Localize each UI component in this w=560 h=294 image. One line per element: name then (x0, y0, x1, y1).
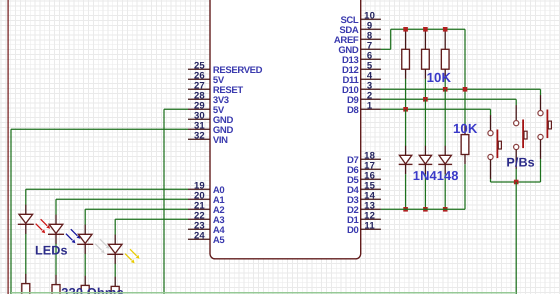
wire GND rail down (464, 29, 466, 125)
junction R7 D row (443, 87, 448, 92)
pin 11 D0 (361, 228, 381, 230)
svg-text:LEDs: LEDs (35, 244, 68, 258)
wire R8 to D2 bus (464, 164, 466, 209)
pushbutton S1 lead bottom (490, 160, 492, 179)
resistor R7 10K lead top (444, 29, 446, 49)
wire diode D2 to D2 bus (424, 174, 426, 209)
LED1 cathode lead (25, 224, 27, 234)
wire LED2 to resistor R2 (55, 244, 57, 275)
junction rail R5 (403, 27, 408, 32)
wire A3 to LED4 (115, 218, 188, 220)
diode D1 anode lead (405, 146, 407, 156)
junction rail R7 (443, 27, 448, 32)
diode D2 cathode lead (424, 164, 426, 174)
LED4 yellow (108, 244, 122, 253)
diode D2 anode lead (424, 146, 426, 156)
pin 26 5V (188, 78, 210, 80)
junction diode D2 D2 bus (423, 207, 428, 212)
resistor R6 lead bottom (424, 69, 426, 79)
pin 23 A4 (188, 228, 210, 230)
resistor R6 10K lead top (424, 29, 426, 49)
pushbutton S1 actuator (497, 130, 499, 159)
LED3 cathode lead (84, 244, 86, 254)
wire D10 to pushbutton S3 (540, 89, 542, 95)
resistor R7 10K (441, 49, 449, 69)
pin 9 SDA (361, 28, 381, 30)
pin 25 RESERVED (188, 68, 210, 70)
junction rail D10 (463, 87, 468, 92)
wire diode D3 to D2 bus (444, 174, 446, 209)
pin 10 SCL (361, 18, 381, 20)
resistor R7 lead bottom (444, 69, 446, 79)
pushbutton S3 lead bottom (540, 140, 542, 159)
resistor R4 330 Ohm (111, 286, 119, 294)
pin 20 A1 (188, 198, 210, 200)
svg-text:10K: 10K (453, 121, 478, 136)
pin 24 A5 (188, 238, 210, 240)
resistor R3 330 Ohm lead (84, 276, 86, 286)
pin 19 A0 (188, 188, 210, 190)
pin 27 RESET (188, 88, 210, 90)
LED3 white anode lead (84, 225, 86, 235)
svg-text:D8: D8 (347, 105, 359, 116)
svg-text:10K: 10K (427, 70, 452, 85)
pushbutton S3 contact bottom (538, 134, 543, 139)
wire pushbutton bottom rail (491, 181, 541, 183)
pushbutton S1 contact bottom (488, 154, 493, 159)
pin 6 D13 (361, 58, 381, 60)
wire GND pin31 to bottom (11, 128, 188, 130)
wire GND pin7 riser to pulldown rail (381, 48, 391, 50)
pin 22 A3 (188, 218, 210, 220)
pushbutton S3 lead top (540, 95, 542, 110)
junction diode D3 D2 bus (443, 207, 448, 212)
resistor R5 10K (402, 49, 410, 69)
diode D2 1N4148 (419, 155, 431, 164)
LED2 cathode lead (55, 234, 57, 244)
wire D row to diode D2 (424, 99, 426, 146)
wire LED1 to resistor R1 (25, 234, 27, 274)
pin 21 A2 (188, 208, 210, 210)
LED4 yellow anode lead (114, 235, 116, 245)
pin 8 AREF (361, 38, 381, 40)
svg-text:1: 1 (367, 101, 373, 112)
LED1 red anode lead (25, 205, 27, 215)
wire diode D1 to D2 bus (405, 174, 407, 209)
pin 1 D8 (361, 108, 381, 110)
svg-text:P/Bs: P/Bs (506, 156, 534, 170)
pin 12 D1 (361, 218, 381, 220)
diode D1 cathode lead (405, 164, 407, 174)
resistor R5 10K lead top (405, 29, 407, 49)
svg-text:32: 32 (194, 130, 205, 141)
junction R6 D row (423, 97, 428, 102)
junction pushbutton rail (514, 180, 519, 185)
pushbutton S2 actuator (522, 120, 524, 149)
pushbutton S1 contact top (488, 131, 493, 136)
resistor R2 330 Ohm (52, 285, 60, 294)
wire A1 to LED2 (56, 198, 188, 200)
wire R5 to D row (405, 79, 407, 109)
pin 2 D9 (361, 98, 381, 100)
pin 7 GND (361, 48, 381, 50)
pin 17 D6 (361, 168, 381, 170)
wire LED4 to resistor R4 (114, 264, 116, 277)
wire rail to bottom edge (515, 182, 517, 294)
LED1 red (19, 214, 33, 223)
pushbutton S3 actuator (547, 110, 549, 139)
pin 28 3V3 (188, 98, 210, 100)
resistor R8 lead bottom (464, 155, 466, 165)
pin 32 VIN (188, 138, 210, 140)
pin 31 GND (188, 128, 210, 130)
sheet frame left border (7, 0, 9, 294)
resistor R8 10K lead top (464, 125, 466, 135)
resistor R3 330 Ohm (81, 285, 89, 294)
resistor R5 lead bottom (405, 69, 407, 79)
wire D8 row (381, 108, 491, 110)
resistor R6 10K (422, 49, 430, 69)
svg-text:D0: D0 (347, 225, 359, 236)
wire pushbutton S2 to rail (515, 169, 517, 182)
svg-text:11: 11 (364, 221, 375, 232)
wire LED3 to resistor R3 (84, 254, 86, 276)
pushbutton S1 lead top (490, 115, 492, 130)
pin 5 D12 (361, 68, 381, 70)
diode D3 1N4148 (439, 155, 451, 164)
svg-text:A5: A5 (213, 235, 226, 246)
junction diode D1 D2 bus (403, 207, 408, 212)
clipped bus at bottom edge (11, 292, 516, 294)
wire D9 to pushbutton S2 (515, 99, 517, 105)
LED2 blue anode lead (55, 215, 57, 225)
resistor R8 10K (461, 135, 469, 155)
wire A0 to LED1 (26, 188, 188, 190)
wire D8 to pushbutton S1 (490, 109, 492, 115)
pin 15 D4 (361, 188, 381, 190)
LED3 white (78, 234, 92, 243)
wire D row to diode D1 (405, 109, 407, 146)
junction rail R6 (423, 27, 428, 32)
pin 16 D5 (361, 178, 381, 180)
pin 18 D7 (361, 158, 381, 160)
IC U1 Arduino body (210, 0, 361, 259)
wire pushbutton S1 to rail (490, 179, 492, 182)
LED2 blue (49, 224, 63, 233)
wire R7 to D row (444, 79, 446, 89)
pushbutton S2 lead top (515, 105, 517, 120)
wire pushbutton S3 to rail (540, 159, 542, 182)
junction R5 D row (403, 107, 408, 112)
wire 5V pin29 to bottom (164, 108, 188, 110)
pushbutton S2 lead bottom (515, 150, 517, 169)
resistor R1 330 Ohm lead (25, 274, 27, 284)
wire D10 row (381, 88, 541, 90)
wire D2 bus (381, 208, 465, 210)
wire D row to diode D3 (444, 89, 446, 146)
pin 3 D10 (361, 88, 381, 90)
diode D1 1N4148 (399, 155, 411, 164)
wire R6 to D row (424, 79, 426, 99)
resistor R4 330 Ohm lead (114, 277, 116, 287)
pin 29 5V (188, 108, 210, 110)
wire A2 to LED3 (85, 208, 188, 210)
LED4 cathode lead (114, 254, 116, 264)
resistor R1 330 Ohm (22, 284, 30, 294)
resistor R2 330 Ohm lead (55, 275, 57, 285)
svg-text:1N4148: 1N4148 (413, 168, 459, 183)
pin 4 D11 (361, 78, 381, 80)
pushbutton S2 contact top (514, 121, 519, 126)
pin 30 GND (188, 118, 210, 120)
svg-text:VIN: VIN (213, 135, 228, 146)
pushbutton S2 contact bottom (514, 144, 519, 149)
pin 13 D2 (361, 208, 381, 210)
wire D9 row (381, 98, 516, 100)
diode D3 anode lead (444, 146, 446, 156)
pin 14 D3 (361, 198, 381, 200)
diode D3 cathode lead (444, 164, 446, 174)
svg-text:24: 24 (194, 230, 205, 241)
pushbutton S3 contact top (538, 111, 543, 116)
